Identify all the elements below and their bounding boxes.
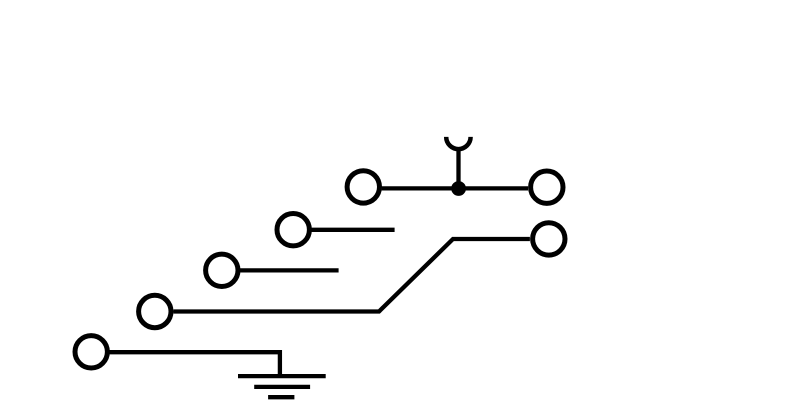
terminal circle P1 (top-left) — [347, 171, 379, 203]
wire (row 5 horizontal + diagonal riser + row 2 horizontal to P3) — [173, 239, 530, 312]
terminal circle P2 (top-right) — [531, 171, 563, 203]
junction dot (node A) — [451, 181, 466, 196]
wire (top row, P1 to P2 through junction) — [382, 186, 528, 190]
terminal circle P7 (bottom-left) — [75, 336, 107, 368]
ground (earth symbol, bar 1) — [238, 374, 326, 378]
ground (earth symbol, bar 2) — [254, 385, 310, 389]
wire (open stub from P5) — [240, 268, 339, 272]
terminal circle P4 (third row left) — [277, 214, 309, 246]
terminal circle P3 (right, second row) — [533, 223, 565, 255]
wire (open stub from P4) — [311, 228, 394, 232]
terminal circle P6 (fifth row left) — [139, 295, 171, 327]
wire (bottom row from P7 to ground drop) — [109, 352, 280, 376]
ground (earth symbol, bar 3) — [268, 395, 294, 399]
wire (vertical stub from junction to plug arc) — [456, 149, 460, 189]
plug/socket contact arc symbol — [446, 137, 470, 149]
terminal circle P5 (fourth row left) — [206, 254, 238, 286]
